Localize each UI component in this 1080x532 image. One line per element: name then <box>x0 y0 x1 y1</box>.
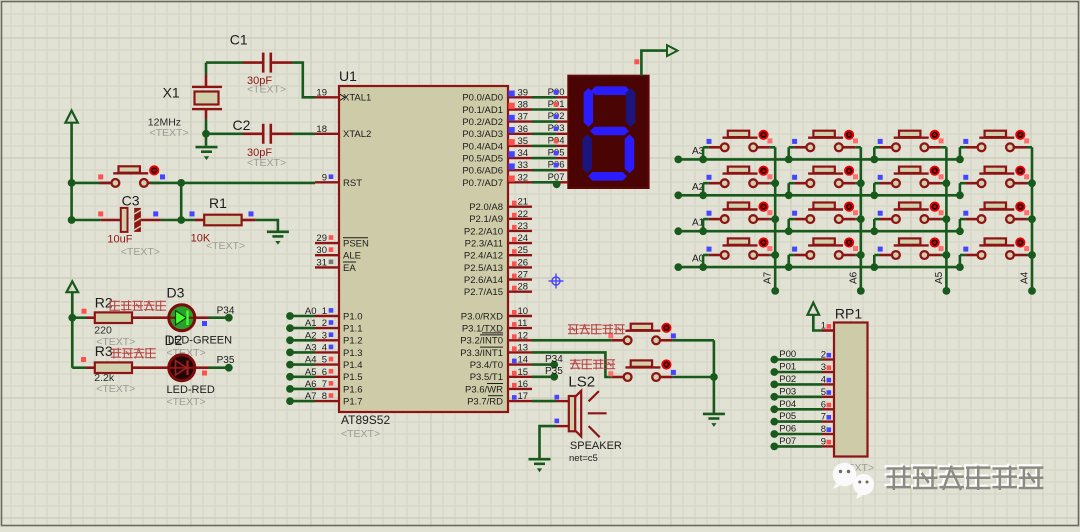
svg-text:4: 4 <box>821 374 826 385</box>
marker square <box>853 138 858 143</box>
marker square <box>827 324 832 329</box>
marker square <box>792 211 797 216</box>
node junction <box>699 191 707 199</box>
wire R1 to ground <box>255 220 278 232</box>
svg-text:P2.7/A15: P2.7/A15 <box>464 287 503 298</box>
node junction column <box>771 251 779 259</box>
wire net A7 to P1.7 <box>286 391 316 405</box>
marker square <box>1024 138 1029 143</box>
watermark text 小邓子分享官 <box>885 464 1042 488</box>
node P35 <box>550 373 558 381</box>
svg-text:21: 21 <box>518 197 529 208</box>
marker square <box>153 211 158 216</box>
svg-text:RST: RST <box>343 178 362 189</box>
svg-text:34: 34 <box>518 148 529 159</box>
node junction <box>699 263 707 271</box>
node junction XTAL2 net <box>202 130 210 138</box>
marker square <box>853 174 858 179</box>
marker square <box>555 419 560 424</box>
wire key to row bus <box>959 147 962 159</box>
wire <box>941 218 947 221</box>
svg-text:5: 5 <box>322 355 327 366</box>
svg-text:P2.6/A14: P2.6/A14 <box>464 275 503 286</box>
wire <box>789 182 795 185</box>
pin 18 XTAL2 (U1 left) <box>315 124 371 140</box>
svg-text:39: 39 <box>518 87 529 98</box>
wire key to row bus <box>702 219 705 231</box>
wire <box>770 182 776 185</box>
marker square <box>792 139 797 144</box>
wire key to row bus <box>787 219 790 231</box>
svg-text:6: 6 <box>821 399 826 410</box>
svg-text:P0.1/AD1: P0.1/AD1 <box>462 105 503 116</box>
push button key row A1 col A4 <box>966 202 1027 224</box>
svg-text:R3: R3 <box>95 343 113 359</box>
power terminal (RST section) <box>65 111 77 123</box>
marker square <box>878 175 883 180</box>
node column A7 end <box>771 287 779 295</box>
display segment b (off) <box>626 88 636 127</box>
wire net P07 to RP1 pin 9 <box>770 436 834 450</box>
svg-text:P2.0/A8: P2.0/A8 <box>469 202 503 213</box>
svg-text:29: 29 <box>316 233 327 244</box>
node junction column <box>857 215 865 223</box>
wire <box>855 254 861 257</box>
ground (buttons) <box>703 414 725 427</box>
node junction <box>785 227 793 235</box>
svg-text:A3: A3 <box>305 342 317 353</box>
node junction <box>956 191 964 199</box>
marker square <box>608 371 613 376</box>
wire <box>703 218 709 221</box>
wire key to row bus <box>873 183 876 195</box>
svg-text:P1.7: P1.7 <box>343 396 363 407</box>
node junction column <box>1028 179 1036 187</box>
power terminal (RP1) <box>808 303 820 315</box>
wire row bus A3 <box>678 158 960 161</box>
svg-text:9: 9 <box>322 172 327 183</box>
svg-text:2: 2 <box>322 318 327 329</box>
svg-text:P2.4/A12: P2.4/A12 <box>464 251 503 262</box>
pin R1 right <box>242 219 256 222</box>
wire key to row bus <box>873 147 876 159</box>
node P34 <box>225 314 233 322</box>
wire key to row bus <box>702 255 705 267</box>
wire <box>874 146 880 149</box>
svg-text:net=c5: net=c5 <box>569 453 598 464</box>
push button key row A3 col A6 <box>794 130 855 152</box>
svg-text:P0.3/AD3: P0.3/AD3 <box>462 129 503 140</box>
svg-text:P0.5/AD5: P0.5/AD5 <box>462 154 503 165</box>
marker square <box>963 139 968 144</box>
svg-text:P1.0: P1.0 <box>343 311 363 322</box>
LED D2 LED-RED (off) <box>169 355 195 381</box>
node P07 <box>553 180 561 188</box>
wire <box>703 146 709 149</box>
wire net P02 to RP1 pin 4 <box>770 374 834 388</box>
wire <box>941 254 947 257</box>
marker square <box>555 395 560 400</box>
display segment f (on) <box>584 88 594 127</box>
svg-text:P02: P02 <box>779 374 796 385</box>
origin marker <box>549 274 564 289</box>
wire <box>960 182 966 185</box>
crystal X1 12MHz <box>192 86 222 111</box>
svg-text:35: 35 <box>518 136 529 147</box>
push button key row A2 col A7 <box>709 166 770 188</box>
svg-text:C1: C1 <box>230 32 248 48</box>
pin 25 P2.4/A12 (U1 right) <box>464 245 532 261</box>
push button 歌曲选择 <box>612 359 673 381</box>
wire junction down <box>180 183 183 220</box>
watermark wechat icon <box>833 463 874 499</box>
svg-text:24: 24 <box>518 233 529 244</box>
node junction C3 row <box>68 216 76 224</box>
pin C3 left <box>101 219 121 222</box>
node junction <box>956 227 964 235</box>
svg-text:15: 15 <box>518 367 529 378</box>
wire net P05 to RP1 pin 7 <box>770 411 834 425</box>
wire power to R3 <box>72 366 86 369</box>
svg-text:P0.6/AD6: P0.6/AD6 <box>462 166 503 177</box>
node P34 <box>550 361 558 369</box>
wire P3.3 to song-select button <box>532 352 612 377</box>
svg-text:A5: A5 <box>934 271 945 284</box>
node junction <box>785 156 793 164</box>
svg-text:P2.3/A11: P2.3/A11 <box>465 239 503 250</box>
push button key row A2 col A6 <box>794 166 855 188</box>
marker square <box>939 210 944 215</box>
svg-text:A2: A2 <box>305 330 317 341</box>
pin 34 P0.5/AD5 (U1 right) <box>462 148 532 164</box>
wire key to row bus <box>873 255 876 267</box>
svg-text:38: 38 <box>518 100 529 111</box>
display segment d (on) <box>588 172 627 181</box>
marker square <box>671 333 676 338</box>
node column A6 end <box>857 287 865 295</box>
pin 29 PSEN (U1 left) <box>315 233 369 249</box>
svg-text:7: 7 <box>322 379 327 390</box>
wire key to row bus <box>787 147 790 159</box>
svg-text:6: 6 <box>322 367 327 378</box>
push button key row A0 col A4 <box>966 237 1027 259</box>
wire column A6 <box>859 147 862 291</box>
pin 12 P3.2/INT0 (U1 right) <box>460 330 532 346</box>
wire net P00 to RP1 pin 2 <box>770 349 834 363</box>
pin 26 P2.5/A13 (U1 right) <box>464 257 532 273</box>
svg-text:P07: P07 <box>779 436 796 447</box>
pin 1 RP1 <box>822 329 834 332</box>
marker square <box>767 174 772 179</box>
svg-text:D2: D2 <box>165 332 183 348</box>
marker square <box>767 210 772 215</box>
wire key to row bus <box>702 147 705 159</box>
svg-text:33: 33 <box>518 160 529 171</box>
pin 4 P1.3 (U1 left) <box>315 342 363 358</box>
wire net A1 to P1.1 <box>286 318 316 332</box>
marker square <box>671 370 676 375</box>
marker square <box>707 175 712 180</box>
marker square <box>707 211 712 216</box>
svg-text:P1.4: P1.4 <box>343 360 363 371</box>
label 歌曲选择 (red) <box>570 359 615 370</box>
svg-text:27: 27 <box>518 270 529 281</box>
pin R3 left <box>86 366 95 369</box>
svg-text:3: 3 <box>821 362 826 373</box>
wire <box>874 254 880 257</box>
pin 21 P2.0/A8 (U1 right) <box>469 197 532 213</box>
wire <box>1027 182 1033 185</box>
push button key row A2 col A4 <box>966 166 1027 188</box>
svg-text:P3.3/INT1: P3.3/INT1 <box>460 348 503 359</box>
wire P3.2 to play/stop button <box>532 339 612 342</box>
7-segment display body <box>568 76 648 188</box>
ground (R1) <box>267 232 289 245</box>
wire <box>789 146 795 149</box>
svg-text:37: 37 <box>518 112 529 123</box>
marker square <box>939 174 944 179</box>
node junction <box>785 191 793 199</box>
ground (speaker) <box>529 459 551 472</box>
push button key row A0 col A6 <box>794 237 855 259</box>
display segment g (on) <box>590 127 629 136</box>
label 歌曲弹奏 (red) <box>111 348 156 359</box>
wire P3.7 to speaker <box>532 400 556 403</box>
svg-text:5: 5 <box>821 387 826 398</box>
node junction <box>177 179 185 187</box>
svg-text:<TEXT>: <TEXT> <box>121 246 160 258</box>
pin C2 right <box>271 133 292 136</box>
svg-text:P3.4/T0: P3.4/T0 <box>470 360 503 371</box>
wire <box>874 182 880 185</box>
svg-text:9: 9 <box>821 436 826 447</box>
wire key to row bus <box>959 255 962 267</box>
svg-text:P0.4/AD4: P0.4/AD4 <box>462 141 503 152</box>
pin 3 P1.2 (U1 left) <box>315 330 363 346</box>
svg-text:A1: A1 <box>305 318 317 329</box>
svg-text:P34: P34 <box>217 306 235 317</box>
wire <box>855 146 861 149</box>
svg-text:P06: P06 <box>779 424 796 435</box>
node junction <box>870 156 878 164</box>
svg-text:<TEXT>: <TEXT> <box>96 383 135 395</box>
svg-text:LS2: LS2 <box>568 374 595 391</box>
wire R3 to D2 <box>132 366 168 369</box>
svg-text:30: 30 <box>316 245 327 256</box>
pin D2 right <box>196 366 209 369</box>
pin 6 P1.5 (U1 left) <box>315 367 363 383</box>
wire net P00 chip to display <box>532 87 568 98</box>
push button key row A1 col A6 <box>794 202 855 224</box>
marker square <box>878 139 883 144</box>
wire <box>960 218 966 221</box>
wire <box>1027 254 1033 257</box>
wire key to row bus <box>787 255 790 267</box>
wire to reset button <box>72 182 112 185</box>
svg-text:220: 220 <box>94 325 112 337</box>
svg-text:P04: P04 <box>779 399 796 410</box>
wire crystal to ground <box>205 119 208 146</box>
marker square <box>707 247 712 252</box>
marker square <box>707 139 712 144</box>
wire crystal top to C1 <box>206 61 243 64</box>
resistor pack RP1 <box>834 323 868 457</box>
push button key row A3 col A7 <box>709 130 770 152</box>
svg-text:4: 4 <box>322 342 327 353</box>
svg-text:16: 16 <box>518 379 529 390</box>
wire to C3 <box>72 219 101 222</box>
marker square <box>98 211 103 216</box>
pin C1 left <box>243 61 263 64</box>
pin 35 P0.4/AD4 (U1 right) <box>462 136 532 152</box>
label 弹奏/停止 (red) <box>109 300 166 311</box>
pin 32 P0.7/AD7 (U1 right) <box>462 172 532 189</box>
svg-text:AT89S52: AT89S52 <box>341 413 390 427</box>
pin 33 P0.6/AD6 (U1 right) <box>462 160 532 176</box>
marker square <box>767 138 772 143</box>
wire net P03 to RP1 pin 5 <box>770 386 834 400</box>
node junction <box>870 191 878 199</box>
pin 13 P3.3/INT1 (U1 right) <box>460 342 532 358</box>
wire R2 to D3 <box>132 316 168 319</box>
marker square <box>939 138 944 143</box>
node junction column <box>771 215 779 223</box>
wire row bus A0 <box>678 266 960 269</box>
marker square <box>190 211 195 216</box>
svg-text:8: 8 <box>322 391 327 402</box>
svg-text:P35: P35 <box>217 355 235 366</box>
marker square <box>939 246 944 251</box>
marker square <box>81 357 86 362</box>
pin 19 XTAL1 (U1 left) <box>315 87 371 103</box>
svg-text:17: 17 <box>518 391 529 402</box>
svg-text:A4: A4 <box>305 355 317 366</box>
marker square <box>249 211 254 216</box>
svg-text:3: 3 <box>322 330 327 341</box>
push button key row A3 col A5 <box>880 130 941 152</box>
LED D3 LED-GREEN (lit) <box>169 305 195 331</box>
wire P3.4 net P34 <box>532 363 554 366</box>
wire <box>789 218 795 221</box>
marker square <box>963 247 968 252</box>
wire <box>960 254 966 257</box>
svg-text:23: 23 <box>518 221 529 232</box>
wire net A2 to P1.2 <box>286 330 316 344</box>
svg-text:<TEXT>: <TEXT> <box>247 157 286 169</box>
svg-text:LED-RED: LED-RED <box>167 384 215 396</box>
svg-text:C3: C3 <box>122 193 140 209</box>
svg-text:A6: A6 <box>848 271 859 284</box>
svg-text:10: 10 <box>518 306 529 317</box>
marker square <box>202 321 207 326</box>
svg-text:A0: A0 <box>305 306 317 317</box>
op-amp U1 body (AT89S52 MCU) <box>339 86 508 412</box>
wire <box>789 254 795 257</box>
wire button to ground rail <box>673 376 714 379</box>
node P35 <box>225 364 233 372</box>
svg-text:1: 1 <box>322 306 327 317</box>
pin 2 P1.1 (U1 left) <box>315 318 363 334</box>
node junction column <box>943 215 951 223</box>
marker square <box>202 371 207 376</box>
node junction <box>699 156 707 164</box>
svg-text:18: 18 <box>316 124 327 135</box>
wire ground rail <box>713 340 716 413</box>
pin 38 P0.1/AD1 (U1 right) <box>462 100 532 116</box>
capacitor C2 <box>262 124 272 144</box>
clock input marker XTAL1 <box>340 94 345 100</box>
svg-text:P3.5/T1: P3.5/T1 <box>470 372 503 383</box>
pin 31 EA (U1 left) <box>315 257 356 273</box>
label 弹奏/停止 (red) <box>568 324 625 335</box>
svg-text:<TEXT>: <TEXT> <box>341 428 380 440</box>
pin 8 P1.7 (U1 left) <box>315 391 363 407</box>
resistor R3 2.2k <box>95 362 132 373</box>
marker square <box>98 174 103 179</box>
wire key to row bus <box>959 219 962 231</box>
pin 24 P2.3/A11 (U1 right) <box>465 233 532 249</box>
svg-text:25: 25 <box>518 245 529 256</box>
pin C2 left <box>243 133 263 136</box>
wire key to row bus <box>959 183 962 195</box>
marker square <box>1024 246 1029 251</box>
svg-text:EA: EA <box>343 263 356 274</box>
display segment c (on) <box>625 134 635 173</box>
svg-text:32: 32 <box>518 172 529 183</box>
wire net P05 chip to display <box>532 148 568 159</box>
wire reset button to RST pin <box>150 182 315 185</box>
svg-text:P1.2: P1.2 <box>343 336 363 347</box>
node junction RST row <box>68 179 76 187</box>
node junction column <box>857 251 865 259</box>
svg-text:2: 2 <box>821 350 826 361</box>
pin 22 P2.1/A9 (U1 right) <box>469 209 532 225</box>
svg-text:P0.2/AD2: P0.2/AD2 <box>462 117 503 128</box>
svg-text:P1.3: P1.3 <box>343 348 363 359</box>
node junction <box>956 156 964 164</box>
power terminal (LED section) <box>67 281 79 292</box>
wire key to row bus <box>702 183 705 195</box>
capacitor C3 10uF (polarized) <box>121 208 141 232</box>
marker square <box>963 175 968 180</box>
node junction <box>785 263 793 271</box>
svg-text:1: 1 <box>821 321 826 332</box>
wire net A3 to P1.3 <box>286 342 316 356</box>
node junction R2 row <box>68 314 76 322</box>
resistor R1 10K <box>204 215 241 226</box>
crystal top pin <box>205 75 208 87</box>
wire net P07 chip to display <box>532 172 568 183</box>
svg-text:7: 7 <box>821 412 826 423</box>
wire row bus A1 <box>678 230 960 233</box>
svg-text:<TEXT>: <TEXT> <box>247 84 286 96</box>
node A0 end <box>674 263 682 271</box>
wire <box>960 146 966 149</box>
svg-text:P34: P34 <box>545 354 563 365</box>
pin 17 P3.7/RD (U1 right) <box>467 391 532 407</box>
wire to R2 <box>72 316 86 319</box>
svg-text:P3.2/INT0: P3.2/INT0 <box>460 336 503 347</box>
push button key row A3 col A4 <box>966 130 1027 152</box>
wire crystal to C2 <box>206 133 243 136</box>
wire net P04 to RP1 pin 6 <box>770 399 834 413</box>
svg-text:12: 12 <box>518 330 529 341</box>
node junction column <box>1028 215 1036 223</box>
pin 28 P2.7/A15 (U1 right) <box>464 282 532 298</box>
pin 10 P3.0/RXD (U1 right) <box>461 306 532 322</box>
marker square <box>82 309 87 314</box>
node junction column <box>1028 251 1036 259</box>
